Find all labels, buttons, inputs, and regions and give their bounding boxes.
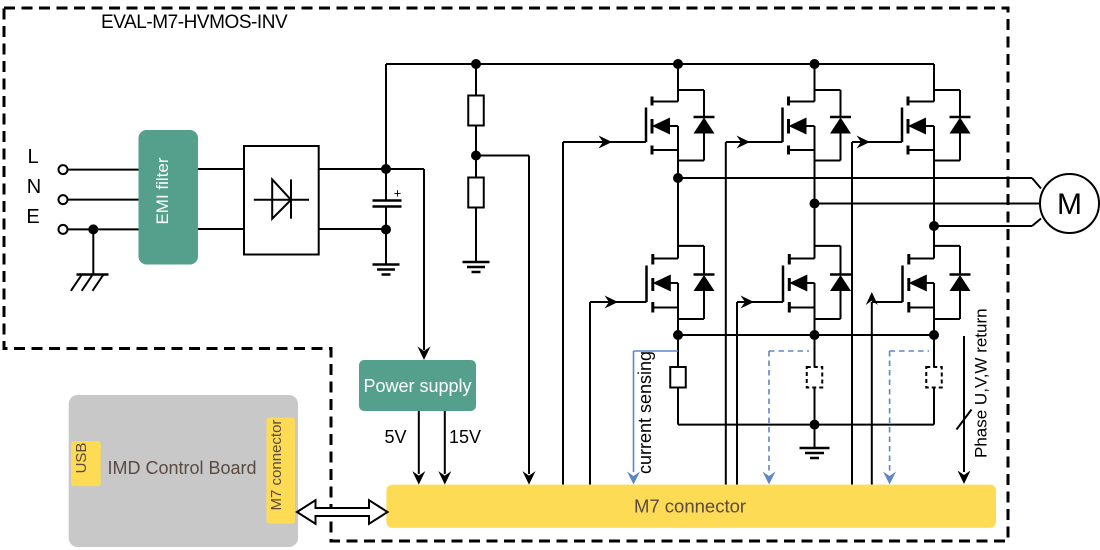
- svg-text:IMD Control Board: IMD Control Board: [107, 458, 256, 478]
- svg-text:M: M: [1057, 188, 1082, 221]
- svg-text:5V: 5V: [384, 427, 406, 447]
- svg-text:USB: USB: [73, 443, 90, 474]
- svg-text:15V: 15V: [449, 427, 481, 447]
- svg-text:Phase U,V,W return: Phase U,V,W return: [972, 308, 991, 458]
- svg-text:N: N: [27, 176, 41, 198]
- svg-text:+: +: [394, 186, 402, 201]
- svg-text:Power supply: Power supply: [363, 376, 471, 396]
- svg-text:M7 connector: M7 connector: [268, 420, 285, 511]
- svg-text:E: E: [26, 206, 39, 228]
- svg-text:L: L: [27, 146, 38, 168]
- svg-text:current sensing: current sensing: [635, 351, 655, 474]
- svg-text:EVAL-M7-HVMOS-INV: EVAL-M7-HVMOS-INV: [101, 12, 288, 33]
- svg-text:M7 connector: M7 connector: [634, 496, 746, 517]
- svg-text:EMI filter: EMI filter: [153, 157, 172, 224]
